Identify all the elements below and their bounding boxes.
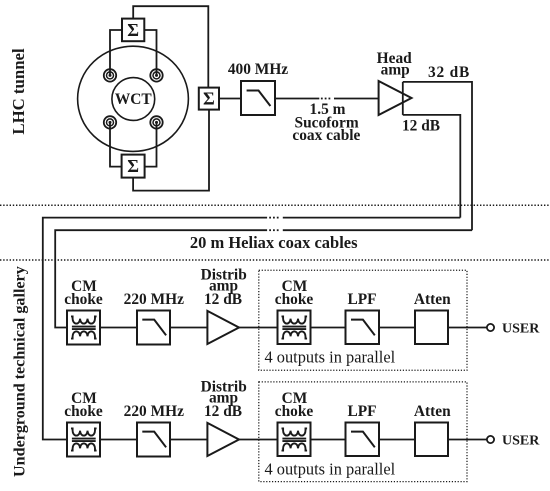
- svg-text:LPF: LPF: [347, 403, 376, 420]
- F3 low-pass response icon: [351, 320, 375, 336]
- wire from cable break to head amp: [334, 98, 379, 100]
- head amp A1: [379, 81, 412, 115]
- CM choke L2 symbol: [282, 316, 308, 338]
- svg-text:LHC tunnel: LHC tunnel: [9, 48, 28, 135]
- attenuator AT2: [415, 423, 448, 457]
- CM choke L1 symbol: [71, 316, 97, 338]
- label CM choke (lower): [64, 390, 103, 420]
- svg-text:choke: choke: [275, 403, 314, 420]
- svg-text:20 m Heliax coax cables: 20 m Heliax coax cables: [190, 233, 358, 252]
- svg-text:WCT: WCT: [115, 91, 153, 108]
- label 1.5 m Sucoform coax cable: [292, 101, 360, 144]
- wire 12 dB output path (bottom): [403, 115, 461, 218]
- wire Heliax cable 2 left run down to upper chain: [55, 230, 267, 327]
- user output terminal (lower): [487, 436, 494, 443]
- label Head amp: [377, 50, 412, 79]
- svg-text:USER: USER: [502, 433, 540, 448]
- F5 low-pass response icon: [351, 432, 375, 448]
- port P1 (top-left pickup): [104, 69, 116, 81]
- F1 low-pass response icon: [247, 91, 271, 107]
- 220 MHz low-pass filter F4: [137, 423, 170, 457]
- label Distrib amp 12 dB (upper): [201, 267, 247, 309]
- WCT inner circle: [112, 78, 155, 121]
- svg-text:400 MHz: 400 MHz: [228, 61, 288, 78]
- CM choke L1 box: [67, 311, 100, 345]
- svg-text:Atten: Atten: [414, 403, 451, 420]
- sigma combiner U3 (right): [199, 88, 219, 110]
- svg-text:coax cable: coax cable: [292, 127, 360, 144]
- label CM choke (upper, in dotted box): [275, 278, 314, 308]
- svg-text:amp: amp: [381, 62, 410, 79]
- user output terminal (upper): [487, 324, 494, 331]
- CM choke L4 box: [278, 423, 311, 457]
- dotted separator line above underground technical gallery: [0, 259, 550, 261]
- label CM choke (lower, in dotted box): [275, 390, 314, 420]
- svg-text:4 outputs in parallel: 4 outputs in parallel: [265, 347, 396, 366]
- wire L1 to 220 MHz filter: [100, 327, 137, 329]
- sigma combiner U1 (top): [122, 19, 144, 42]
- port P2 (top-right pickup): [150, 69, 162, 81]
- svg-text:12 dB: 12 dB: [204, 291, 242, 308]
- wire F2 to distribution amp: [170, 327, 207, 329]
- cable break dots on Heliax cable 2: [269, 229, 278, 231]
- wire from U3 to 400 MHz filter: [219, 98, 241, 100]
- wire from U2 output under the bottom to U3: [133, 110, 209, 191]
- svg-text:12 dB: 12 dB: [402, 117, 440, 134]
- wire L4 to LPF: [311, 439, 346, 441]
- CM choke L4 symbol: [282, 428, 308, 450]
- svg-text:12 dB: 12 dB: [204, 403, 242, 420]
- LPF filter F5: [346, 423, 380, 457]
- cable break dots on Sucoform cable: [321, 98, 330, 100]
- svg-text:LPF: LPF: [347, 291, 376, 308]
- svg-text:choke: choke: [64, 403, 103, 420]
- wire AT2 to user terminal: [448, 439, 487, 441]
- wire L3 to 220 MHz filter: [100, 439, 137, 441]
- svg-text:Underground technical gallery: Underground technical gallery: [12, 266, 29, 477]
- distribution amp A2: [207, 311, 239, 344]
- 400 MHz low-pass filter F1: [241, 81, 275, 115]
- wire from port P3 to bottom sigma combiner: [110, 122, 122, 166]
- CM choke L3 symbol: [71, 428, 97, 450]
- wire Heliax cable 1 (upper horizontal run): [283, 217, 461, 219]
- dotted box: 4 outputs in parallel (upper): [259, 270, 467, 370]
- label Distrib amp 12 dB (lower): [201, 379, 247, 421]
- wire from F1 to head amp (1.5 m Sucoform coax cable): [275, 98, 319, 100]
- wire A2 into parallel outputs box: [239, 327, 278, 329]
- svg-text:Σ: Σ: [203, 89, 215, 109]
- svg-text:220 MHz: 220 MHz: [124, 291, 184, 308]
- LPF filter F3: [346, 311, 380, 345]
- cable break dots on Heliax cable 1: [269, 217, 278, 219]
- wire L2 to LPF: [311, 327, 346, 329]
- svg-text:220 MHz: 220 MHz: [124, 403, 184, 420]
- wire vertical joining head amp outputs: [402, 82, 404, 115]
- svg-text:Atten: Atten: [414, 291, 451, 308]
- wire A3 into parallel outputs box: [239, 439, 278, 441]
- dotted box: 4 outputs in parallel (lower): [259, 382, 467, 482]
- attenuator AT1: [415, 311, 448, 345]
- wire from port P2 to top sigma combiner: [144, 30, 156, 75]
- wire F3 to attenuator: [379, 327, 415, 329]
- wire from U1 output over the top to U3: [133, 6, 208, 87]
- wire from port P4 to bottom sigma combiner: [145, 122, 157, 166]
- wire Heliax cable 2 (lower horizontal run): [283, 229, 472, 231]
- CM choke L2 box: [278, 311, 311, 345]
- F4 low-pass response icon: [142, 432, 166, 448]
- svg-text:Σ: Σ: [127, 156, 139, 176]
- svg-text:32 dB: 32 dB: [428, 64, 470, 81]
- distribution amp A3: [207, 423, 239, 456]
- wire Heliax cable 1 left run down to lower chain: [43, 218, 267, 440]
- wire AT1 to user terminal: [448, 327, 487, 329]
- F2 low-pass response icon: [142, 320, 166, 336]
- wire F5 to attenuator: [379, 439, 415, 441]
- svg-text:choke: choke: [275, 291, 314, 308]
- label CM choke (upper): [64, 278, 103, 308]
- WCT transformer body (outer ring): [78, 46, 189, 151]
- svg-text:choke: choke: [64, 291, 103, 308]
- port P3 (bottom-left pickup): [104, 116, 116, 128]
- dotted separator line between LHC tunnel and gallery: [0, 204, 550, 206]
- svg-text:4 outputs in parallel: 4 outputs in parallel: [265, 459, 396, 478]
- wire F4 to distribution amp: [170, 439, 207, 441]
- svg-text:Σ: Σ: [127, 20, 139, 40]
- wire from port P1 to top sigma combiner: [110, 30, 122, 75]
- CM choke L3 box: [67, 423, 100, 457]
- svg-text:USER: USER: [502, 321, 540, 336]
- wire 32 dB output path (top): [403, 82, 472, 230]
- 220 MHz low-pass filter F2: [137, 311, 170, 345]
- port P4 (bottom-right pickup): [150, 116, 162, 128]
- sigma combiner U2 (bottom): [122, 155, 145, 178]
